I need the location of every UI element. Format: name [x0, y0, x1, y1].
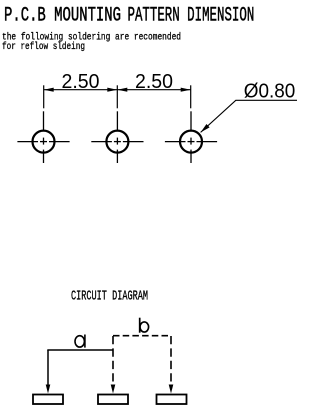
terminal T2 — [98, 395, 128, 405]
svg-text:2.50: 2.50 — [62, 71, 100, 93]
diameter label Ø0.80 — [244, 80, 295, 102]
svg-text:for reflow sldeing: for reflow sldeing — [2, 41, 85, 53]
mounting hole H1 — [33, 131, 55, 153]
note line 1 — [2, 32, 181, 44]
extension line at hole H1 — [43, 85, 45, 108]
title: P.C.B MOUNTING PATTERN DIMENSION — [4, 5, 254, 28]
terminal T1 — [33, 395, 63, 405]
svg-text:P.C.B MOUNTING: P.C.B MOUNTING — [4, 5, 121, 28]
extension line at hole H3 — [190, 85, 192, 108]
dimension text 2.50 (right) — [135, 71, 173, 93]
dimension line 2.50 between H2 and H3 — [117, 88, 190, 92]
circuit diagram heading — [71, 288, 148, 304]
svg-text:PATTERN DIMENSION: PATTERN DIMENSION — [128, 5, 255, 28]
leader line for hole diameter — [201, 100, 297, 132]
arrowhead onto terminal T3 — [169, 385, 174, 394]
dimension text 2.50 (left) — [62, 71, 100, 93]
arrowhead onto terminal T1 — [46, 385, 51, 394]
label b — [140, 318, 149, 333]
mounting hole H2 — [106, 131, 128, 153]
centerline of H1 — [17, 111, 69, 163]
mounting hole H3 — [180, 131, 202, 153]
centerline of H2 — [91, 111, 143, 163]
label a — [75, 335, 85, 348]
note line 2 — [2, 41, 85, 53]
dimension line 2.50 between H1 and H2 — [44, 88, 118, 92]
wire a (solid) from terminal T1 to node at T2 — [47, 350, 113, 385]
svg-text:Ø0.80: Ø0.80 — [244, 80, 295, 102]
arrowhead onto terminal T2 — [111, 385, 116, 394]
svg-text:2.50: 2.50 — [135, 71, 173, 93]
wire b (dashed) bracket over T2 and T3 — [113, 336, 171, 386]
svg-text:CIRCUIT DIAGRAM: CIRCUIT DIAGRAM — [71, 288, 148, 304]
centerline of H3 — [165, 111, 217, 163]
extension line at hole H2 — [116, 85, 118, 108]
terminal T3 — [157, 395, 187, 405]
